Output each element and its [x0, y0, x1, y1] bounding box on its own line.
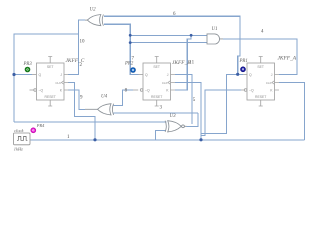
junction Q_C / left rail [12, 73, 15, 76]
flip-flop JKFF_C [30, 57, 69, 107]
svg-text:J: J [167, 73, 169, 77]
wire J of JKFF_B to lane [175, 74, 192, 124]
wire net2 down to J of JKFF_C [68, 34, 79, 75]
wire U1 input B from Q_B lane [130, 42, 207, 44]
svg-text:PR1: PR1 [239, 59, 248, 64]
wire U1 output net4 to J of JKFF_A [223, 39, 297, 74]
wire U3 output riser [187, 113, 199, 127]
svg-text:J: J [60, 73, 62, 77]
svg-text:Q: Q [249, 73, 252, 77]
svg-text:SET: SET [153, 65, 160, 69]
wire U1 input A line [130, 34, 207, 36]
flip-flop JKFF_B [133, 57, 175, 107]
svg-text:U4: U4 [101, 95, 108, 100]
svg-text:RESET: RESET [45, 95, 56, 99]
wire K of JKFF_B up to U1 input B [175, 35, 191, 90]
svg-text:RESET: RESET [255, 95, 266, 99]
svg-text:SET: SET [47, 65, 54, 69]
svg-text:J: J [271, 73, 273, 77]
wire U4 input A to ~Q of JKFF_B [114, 90, 134, 106]
svg-text:CLK: CLK [55, 81, 61, 85]
svg-text:~Q: ~Q [145, 89, 150, 93]
svg-text:~Q: ~Q [249, 89, 254, 93]
junction clock / FFC clk [93, 138, 96, 141]
svg-text:CLK: CLK [162, 81, 168, 85]
gate U3 xnor [165, 121, 186, 132]
gate U2 xor mirrored [85, 15, 103, 26]
svg-text:11: 11 [189, 60, 194, 65]
svg-text:PR3: PR3 [23, 62, 33, 67]
junction U1 inputA / J lane [190, 34, 193, 37]
junction clock / lane201 [199, 138, 202, 141]
junction U1 inputB / Q_B lane [129, 41, 132, 44]
wire CLK of JKFF_A from clock line [279, 83, 305, 140]
svg-text:CLK: CLK [266, 81, 272, 85]
wire Q of JKFF_A to lane down [201, 74, 243, 133]
probe PR2 on Q_B [124, 62, 136, 73]
svg-text:~Q: ~Q [39, 89, 44, 93]
wire net10 branch to left rail [14, 34, 79, 122]
svg-text:1kHz: 1kHz [14, 147, 23, 152]
svg-text:10: 10 [80, 40, 86, 45]
wire U3 input B to clock line [156, 131, 167, 140]
wire U4 input B long line to J lane [114, 112, 199, 114]
wire ~Q of JKFF_A down to clock line [201, 90, 241, 135]
wire clock line [31, 139, 305, 141]
svg-text:U1: U1 [212, 27, 218, 32]
probe PR1 on Q_A [239, 59, 248, 72]
clock source [14, 128, 31, 152]
wire U2 output to corner [79, 20, 86, 34]
svg-text:JKFF_A: JKFF_A [278, 56, 297, 62]
wire U2 input B down and right to U1 input A [104, 24, 139, 74]
svg-text:SET: SET [257, 65, 264, 69]
svg-text:PR2: PR2 [124, 62, 134, 67]
wire K of JKFF_C to U4 output [68, 90, 85, 109]
svg-text:RESET: RESET [151, 95, 162, 99]
svg-text:PR4: PR4 [36, 123, 45, 128]
probe PR3 on Q_C [23, 62, 33, 72]
wire Q of JKFF_C to left rail [14, 74, 32, 76]
svg-text:Q: Q [39, 73, 42, 77]
wire U2 input A net6 [104, 16, 240, 74]
flip-flop JKFF_A [241, 57, 279, 107]
wire long net from left rail to U3 input A [14, 121, 167, 123]
svg-text:clock: clock [14, 128, 24, 133]
svg-text:U2: U2 [90, 8, 97, 13]
gate U4 xor mirrored [85, 104, 114, 115]
gate U1 and [207, 34, 223, 44]
probe PR4 on clock [31, 123, 45, 133]
svg-text:U3: U3 [170, 114, 177, 119]
junction Q_A / net6 [236, 73, 239, 76]
wire CLK of JKFF_C down to clock line [68, 83, 95, 140]
wire CLK of JKFF_B down to clock line [175, 83, 201, 140]
svg-text:Q: Q [145, 73, 148, 77]
